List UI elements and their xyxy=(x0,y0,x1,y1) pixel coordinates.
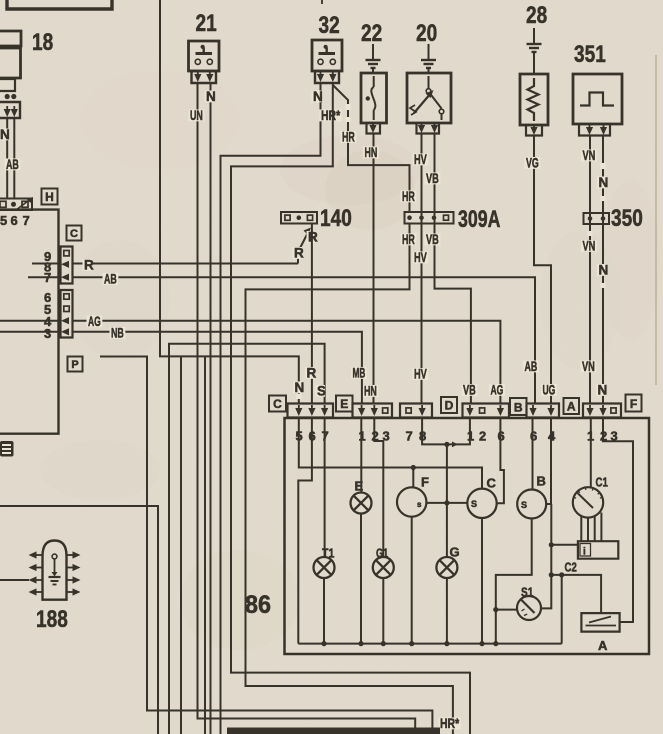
svg-text:309A: 309A xyxy=(458,206,500,233)
wire R from 140 to cluster pin 6 xyxy=(311,224,313,404)
bundle wire xyxy=(180,356,182,734)
svg-text:F: F xyxy=(630,397,637,411)
wire N to cluster pin 5 from top-edge line xyxy=(160,0,299,403)
svg-text:B: B xyxy=(537,474,546,489)
lamp symbol in 21 xyxy=(196,52,213,55)
boxed letter A row xyxy=(564,398,580,414)
wire HV from 20 to cluster pin 8 xyxy=(421,134,423,404)
svg-text:20: 20 xyxy=(416,20,437,47)
svg-text:UG: UG xyxy=(543,383,556,398)
svg-text:HN: HN xyxy=(364,384,377,399)
svg-text:N: N xyxy=(295,380,305,395)
svg-text:R: R xyxy=(84,258,94,273)
node C2 chain xyxy=(541,504,551,608)
svg-text:s: s xyxy=(417,500,422,509)
svg-text:VB: VB xyxy=(426,232,439,247)
connector C strip on left unit xyxy=(61,247,73,284)
svg-text:E: E xyxy=(355,479,364,494)
wire N from 21 xyxy=(210,83,212,734)
internal wire to pin 3 xyxy=(0,331,61,333)
svg-text:A: A xyxy=(567,400,576,414)
svg-text:HV: HV xyxy=(414,152,427,167)
component 28 connector xyxy=(526,125,542,136)
internal AG wire to gauge C xyxy=(497,418,504,503)
svg-text:H: H xyxy=(45,190,54,204)
connector 309A strip xyxy=(405,212,454,224)
svg-text:VG: VG xyxy=(526,156,539,171)
link C2 to box A xyxy=(551,575,601,613)
component 351 body xyxy=(573,74,622,124)
wire R riser to 140 xyxy=(298,232,309,264)
component 351 connector xyxy=(579,124,610,136)
svg-text:R: R xyxy=(294,246,304,261)
wire N from 351 through 350 xyxy=(602,136,604,404)
lamp/ground symbol in 188 xyxy=(52,554,57,559)
svg-text:18: 18 xyxy=(32,29,53,56)
wire N from 18 xyxy=(6,119,8,199)
internal N wire from pin F2 xyxy=(603,418,633,622)
svg-text:140: 140 xyxy=(320,205,352,232)
connector 350 strip xyxy=(584,213,610,224)
S1 left terminal xyxy=(496,609,517,611)
svg-text:7: 7 xyxy=(406,429,413,444)
switch symbol in 22 xyxy=(373,76,375,87)
wire HN from 22 to cluster pin E2 xyxy=(373,134,375,404)
strip A group pins 6 4 xyxy=(527,404,560,418)
gauge C xyxy=(467,489,496,518)
component 188 body xyxy=(43,541,67,600)
strip C group pins 5 6 7 xyxy=(288,404,334,418)
svg-text:S1: S1 xyxy=(521,585,533,600)
boxed letter H xyxy=(42,189,58,205)
internal link pin8 to pin1 xyxy=(422,418,470,444)
svg-text:C: C xyxy=(487,476,497,491)
boxed letter C row xyxy=(269,396,286,412)
internal wire to pin 4 xyxy=(0,320,61,322)
svg-text:6: 6 xyxy=(530,429,537,444)
ground of 22 xyxy=(372,44,374,52)
svg-text:NB: NB xyxy=(111,326,124,341)
bundle wire 2 xyxy=(204,356,206,734)
strip D group pins 7 8 xyxy=(400,404,432,418)
wire with stub joining bundle xyxy=(100,357,432,734)
svg-text:T1: T1 xyxy=(322,546,334,561)
svg-text:G1: G1 xyxy=(376,546,388,561)
component 20 body xyxy=(407,73,451,123)
internal UG wire to gauge B right xyxy=(546,418,551,504)
strip F group pins 1 2 3 xyxy=(583,404,621,418)
svg-text:i: i xyxy=(583,547,586,558)
svg-text:HR*: HR* xyxy=(321,108,341,123)
svg-text:N: N xyxy=(599,175,609,190)
boxed letter C left xyxy=(67,226,82,241)
boxed letter F row xyxy=(626,395,642,412)
resistor symbol in 28 xyxy=(528,78,539,121)
svg-text:MB: MB xyxy=(353,366,366,381)
internal S wire through lamp T1 xyxy=(324,418,326,557)
wire N from 32 xyxy=(221,84,321,734)
svg-text:22: 22 xyxy=(361,20,382,47)
ground of 20 xyxy=(428,44,430,52)
arrow to H xyxy=(16,200,30,211)
wire HR from 309A down to bundle xyxy=(246,224,453,734)
svg-text:UN: UN xyxy=(190,108,203,123)
svg-text:VB: VB xyxy=(463,383,476,398)
internal wire to pin 8 xyxy=(32,263,61,265)
svg-text:S: S xyxy=(471,499,477,509)
wire UN from 21 xyxy=(198,83,416,734)
black connector tag at left edge xyxy=(0,441,14,457)
svg-text:2: 2 xyxy=(479,429,486,444)
svg-text:3: 3 xyxy=(44,326,51,341)
svg-text:86: 86 xyxy=(245,591,271,619)
wire AB from 18 xyxy=(13,119,15,199)
wire HR branch from 32 to 309A xyxy=(333,85,410,212)
svg-text:F: F xyxy=(421,475,429,490)
wire VG/UG from 28 to cluster pin 4 xyxy=(534,136,551,404)
wire from left edge y506 xyxy=(0,506,158,734)
pins of 188 right xyxy=(67,554,73,556)
internal AB wire to gauge B xyxy=(532,418,534,490)
svg-text:B: B xyxy=(514,401,523,415)
svg-text:VN: VN xyxy=(583,239,596,254)
svg-text:A: A xyxy=(598,638,608,653)
svg-text:188: 188 xyxy=(36,606,68,633)
svg-text:6: 6 xyxy=(11,213,18,228)
svg-text:HV: HV xyxy=(414,367,427,382)
svg-text:N: N xyxy=(313,89,323,104)
gauge B xyxy=(517,490,546,519)
wire NB from left unit pin 3 to cluster pin E1 xyxy=(73,332,362,403)
svg-text:C2: C2 xyxy=(565,560,577,575)
lamp T1 xyxy=(314,557,335,578)
pins of 188 left xyxy=(37,554,43,556)
svg-text:AG: AG xyxy=(491,383,504,398)
component 22 connector xyxy=(367,123,381,134)
internal node N feed xyxy=(299,418,482,489)
svg-text:VN: VN xyxy=(582,359,595,374)
svg-text:HV: HV xyxy=(414,250,427,265)
wire AB from left unit pin 7 to cluster xyxy=(73,277,536,403)
pulse symbol in 351 xyxy=(580,93,614,106)
wire to lamp unit 188 xyxy=(0,579,29,581)
svg-text:P: P xyxy=(71,359,78,371)
page edge crease line xyxy=(655,55,657,385)
left unit box xyxy=(0,210,59,434)
boxed letter D row xyxy=(441,397,457,413)
gauge C1 tails to i box xyxy=(580,516,582,542)
svg-text:HR*: HR* xyxy=(440,716,460,731)
wire S to cluster pin 7 xyxy=(169,344,325,734)
svg-text:S: S xyxy=(521,500,527,510)
internal HN wire to lamp G1 xyxy=(374,418,383,557)
internal wire to pin 7 xyxy=(28,276,61,278)
gauge S1 xyxy=(517,596,541,620)
svg-text:R: R xyxy=(307,366,317,381)
component 20 connector xyxy=(417,123,440,134)
component 32 connector xyxy=(315,71,339,83)
svg-text:D: D xyxy=(445,399,454,413)
thermo switch symbol in 20 xyxy=(428,76,430,88)
wire HR second branch from 32 xyxy=(231,84,470,734)
internal MB wire to lamp E xyxy=(360,418,362,493)
wire VN from 351 through 350 xyxy=(589,136,591,404)
component 22 body xyxy=(361,73,387,123)
lamp G1 xyxy=(373,557,394,578)
boxed letter E row xyxy=(336,396,353,412)
svg-text:AB: AB xyxy=(525,359,538,374)
component 32 body xyxy=(312,40,342,71)
connector 140 strip xyxy=(281,212,317,224)
connector P strip on left unit xyxy=(61,290,73,338)
component 18 connector xyxy=(0,102,20,118)
component 28 body xyxy=(520,74,548,125)
svg-text:32: 32 xyxy=(319,12,340,39)
svg-text:N: N xyxy=(0,127,10,142)
svg-text:N: N xyxy=(206,89,216,104)
wire R from left unit pin 8 to 140 xyxy=(73,263,299,265)
svg-text:VN: VN xyxy=(583,148,596,163)
internal VN wire to gauge C1 xyxy=(590,418,592,488)
boxed letter B row xyxy=(510,398,527,415)
bottom connector bar xyxy=(227,728,440,734)
ground of 28 xyxy=(533,28,535,36)
component 21 body xyxy=(189,41,220,71)
svg-text:28: 28 xyxy=(526,2,547,29)
svg-text:HN: HN xyxy=(365,145,378,160)
svg-text:HR: HR xyxy=(402,232,415,247)
svg-text:AB: AB xyxy=(104,272,117,287)
component 18 body xyxy=(0,31,21,46)
lamp E xyxy=(351,493,372,514)
svg-text:C1: C1 xyxy=(596,475,608,490)
lamp symbol in 32 xyxy=(319,52,336,55)
svg-text:HR: HR xyxy=(342,130,355,145)
lamp G xyxy=(436,557,457,578)
svg-text:351: 351 xyxy=(574,41,606,68)
connector H strip xyxy=(0,199,32,211)
svg-text:21: 21 xyxy=(196,10,217,37)
svg-text:7: 7 xyxy=(23,213,30,228)
svg-text:S: S xyxy=(317,384,326,399)
internal wire to lamp G xyxy=(446,444,448,557)
internal R to ground bus xyxy=(298,418,312,644)
gauge F right terminal xyxy=(426,502,467,504)
svg-text:R: R xyxy=(308,230,318,245)
gauge C1 xyxy=(573,487,603,517)
box i xyxy=(578,541,618,559)
gauge F xyxy=(397,487,426,516)
box A relay xyxy=(581,613,619,632)
svg-text:N: N xyxy=(599,263,609,278)
tick above 32 xyxy=(321,0,323,4)
boxed letter P xyxy=(68,357,83,372)
svg-text:AB: AB xyxy=(6,157,19,172)
svg-text:VB: VB xyxy=(426,171,439,186)
svg-text:5: 5 xyxy=(0,213,7,228)
svg-text:HR: HR xyxy=(402,189,415,204)
svg-text:G: G xyxy=(450,545,460,560)
gauge B bottom to S1 xyxy=(496,519,532,644)
cluster 86 box xyxy=(285,418,650,654)
svg-text:AG: AG xyxy=(88,314,101,329)
wire AG from left unit pin 4 to cluster xyxy=(73,321,501,403)
component 21 connector xyxy=(192,71,217,83)
link C2 to i box xyxy=(551,544,578,546)
svg-text:E: E xyxy=(340,397,348,411)
wire VB from 20 via 309A to cluster pin 1 xyxy=(435,134,471,404)
svg-text:N: N xyxy=(598,383,608,398)
svg-text:C: C xyxy=(273,397,282,411)
svg-text:350: 350 xyxy=(611,205,643,232)
strip B group pins 1 2 6 xyxy=(463,404,510,418)
svg-text:C: C xyxy=(70,228,78,240)
strip E group pins 1 2 3 xyxy=(353,404,393,418)
box fragment top-left xyxy=(7,0,112,9)
drop from C2 link to bus xyxy=(561,575,563,644)
dash gaps on wires xyxy=(296,104,605,399)
ground bus in cluster xyxy=(298,643,561,645)
